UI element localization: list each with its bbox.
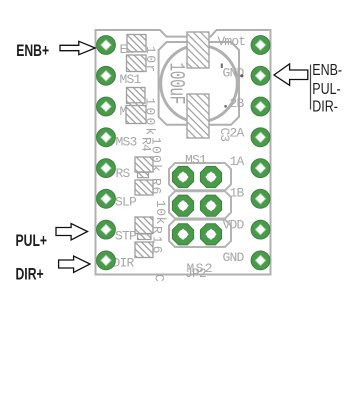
svg-text:DIR-: DIR- bbox=[312, 98, 338, 116]
svg-text:DIR+: DIR+ bbox=[16, 266, 44, 284]
resistor R3 bbox=[127, 88, 146, 104]
speck dot near 2B bbox=[224, 105, 227, 108]
pad 2A (through-hole) bbox=[251, 128, 270, 147]
octagon JP sel pad 3A bbox=[172, 224, 193, 245]
arrow PUL+ bbox=[56, 224, 88, 240]
text cursor line bbox=[310, 65, 312, 110]
capacitor pad P$1 hatched bbox=[187, 32, 209, 68]
octagon JP sel pad 3B bbox=[200, 224, 221, 245]
pad bridge R3/R4 bbox=[130, 103, 143, 108]
resistor R15 bbox=[135, 217, 153, 234]
jumper block JP outline row2 bbox=[169, 191, 231, 218]
octagon JP sel pad 1B bbox=[200, 166, 221, 187]
svg-text:PUL+: PUL+ bbox=[16, 232, 48, 250]
svg-text:PUL-: PUL- bbox=[312, 81, 341, 99]
arrow ENB-/PUL-/DIR- (left pointing) bbox=[274, 64, 308, 85]
octagon JP sel pad 1A bbox=[172, 166, 193, 187]
resistor R6 bbox=[135, 180, 153, 195]
board outline bbox=[96, 30, 271, 275]
pad STP (through-hole) bbox=[97, 220, 116, 239]
pad bridge R5/R6 bbox=[138, 172, 149, 177]
pad bridge R15/R16 bbox=[138, 234, 152, 240]
svg-text:ENB+: ENB+ bbox=[16, 42, 49, 60]
resistor R5 bbox=[135, 157, 153, 172]
pad 2B (through-hole) bbox=[251, 97, 270, 116]
pad DIR (through-hole) bbox=[97, 251, 116, 270]
octagon JP sel pad 2A bbox=[172, 195, 193, 216]
svg-text:ENB-: ENB- bbox=[312, 62, 342, 80]
pad GND (through-hole) bbox=[251, 251, 270, 270]
pad 1A (through-hole) bbox=[251, 159, 270, 178]
arrow DIR+ bbox=[59, 256, 90, 272]
pad EN (through-hole) bbox=[97, 36, 116, 55]
jumper block JP outline row1 bbox=[169, 163, 231, 190]
pad MS1 (through-hole) bbox=[97, 66, 116, 85]
pad MS2 (through-hole) bbox=[97, 97, 116, 116]
capacitor C outline square bbox=[159, 42, 239, 125]
resistor R4 bbox=[126, 106, 146, 124]
resistor R16 bbox=[135, 242, 153, 258]
pad 1B (through-hole) bbox=[251, 189, 270, 208]
speck apostrophe near GND bbox=[221, 64, 223, 69]
speck dot left of GND pad bbox=[240, 74, 243, 77]
pad Vmot (through-hole) bbox=[251, 36, 270, 55]
resistor R1 bbox=[127, 35, 146, 52]
octagon JP sel pad 2B bbox=[200, 195, 221, 216]
pad VDD (through-hole) bbox=[251, 220, 270, 239]
jumper block JP outline row3 bbox=[169, 220, 231, 247]
resistor R2 bbox=[127, 55, 147, 72]
pad RS (through-hole) bbox=[97, 159, 116, 178]
pad SLP (through-hole) bbox=[97, 189, 116, 208]
capacitor pad P$2 hatched bbox=[187, 94, 209, 138]
arrow ENB+ bbox=[60, 41, 95, 54]
pad GND (through-hole) bbox=[251, 66, 270, 85]
pad MS3 (through-hole) bbox=[97, 128, 116, 147]
capacitor C circle bbox=[161, 45, 238, 122]
